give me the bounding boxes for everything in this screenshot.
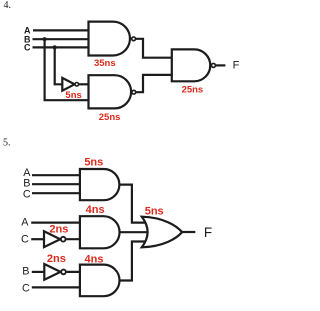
wire node B down to NAND U3 lower input <box>45 39 89 100</box>
inverter U2 output bubble <box>75 83 79 87</box>
svg-text:4ns: 4ns <box>86 204 105 216</box>
wire inverter U8 output to AND U10 top input <box>67 271 84 273</box>
wire NAND U4 output to F <box>216 64 225 66</box>
wire input A2 to AND U7 top input <box>31 222 84 224</box>
wire inverter U2 output to NAND U3 top input <box>78 83 89 85</box>
svg-text:A: A <box>21 216 29 228</box>
wire input C to NAND U1 <box>33 46 92 48</box>
svg-text:5.: 5. <box>3 138 11 149</box>
svg-text:C: C <box>22 282 30 294</box>
OR gate U9 body <box>142 217 182 248</box>
AND gate U7 body <box>80 216 120 248</box>
inverter U2 body <box>62 78 74 91</box>
inverter U8 body <box>44 264 60 280</box>
svg-text:F: F <box>204 225 212 240</box>
svg-text:5ns: 5ns <box>145 205 164 217</box>
node junction on B line <box>43 37 47 41</box>
svg-text:25ns: 25ns <box>99 112 121 123</box>
svg-text:25ns: 25ns <box>182 84 204 95</box>
NAND gate U3 body <box>89 75 132 108</box>
NAND gate U4 output bubble <box>211 63 215 67</box>
NAND gate U1 output bubble <box>132 37 136 41</box>
AND gate U10 body <box>80 265 120 297</box>
svg-text:C: C <box>21 233 29 245</box>
inverter U6 output bubble <box>61 237 66 242</box>
wire input B2 to inverter U8 <box>32 271 45 273</box>
wire AND U5 output to OR U9 top input <box>119 185 147 223</box>
wire input C3 to AND U10 lower input <box>32 286 84 288</box>
inverter U6 body <box>44 231 60 247</box>
svg-text:2ns: 2ns <box>47 253 66 265</box>
wire input C to AND U5 <box>32 192 84 194</box>
svg-text:5ns: 5ns <box>65 90 81 101</box>
svg-text:C: C <box>23 188 31 200</box>
wire input C2 to inverter U6 <box>31 238 44 240</box>
svg-text:2ns: 2ns <box>49 223 68 235</box>
svg-text:35ns: 35ns <box>94 58 116 69</box>
svg-text:F: F <box>233 60 240 72</box>
wire OR U9 output to F <box>182 231 195 233</box>
AND gate U5 body <box>80 169 119 200</box>
svg-text:5ns: 5ns <box>84 156 103 168</box>
NAND gate U4 body <box>172 49 210 81</box>
wire node C down to inverter U2 input <box>55 47 63 84</box>
node junction on C line <box>53 45 57 49</box>
NAND gate U3 output bubble <box>132 90 136 94</box>
wire input B to AND U5 <box>32 183 84 185</box>
inverter U8 output bubble <box>61 270 66 275</box>
wire NAND U1 output to NAND U4 top input <box>135 39 172 58</box>
wire AND U7 output to OR U9 middle input <box>119 231 147 233</box>
NAND gate U1 body <box>89 22 130 56</box>
wire AND U10 output to OR U9 bottom input <box>119 242 147 281</box>
wire NAND U3 output to NAND U4 lower input <box>135 75 172 92</box>
wire input B to NAND U1 <box>33 38 92 40</box>
svg-text:C: C <box>24 43 31 53</box>
svg-text:4.: 4. <box>4 0 12 11</box>
wire inverter U6 output to AND U7 lower input <box>66 238 84 240</box>
svg-text:4ns: 4ns <box>85 253 104 265</box>
wire input A to NAND U1 <box>33 29 91 31</box>
svg-text:B: B <box>22 266 29 278</box>
wire input A to AND U5 <box>32 174 84 176</box>
